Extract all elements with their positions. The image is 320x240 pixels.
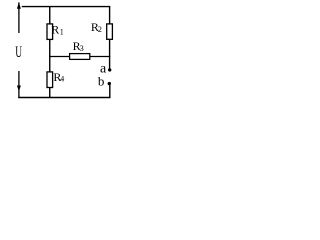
wire left lower segment (voltage source lead) — [18, 71, 20, 98]
resistor R4 — [47, 72, 53, 88]
wire R2 bottom to terminal a — [109, 39, 111, 69]
terminal node a dot — [108, 68, 111, 71]
wire R2 branch top — [109, 7, 111, 24]
wire R4 bottom — [49, 88, 51, 98]
resistor R2 — [107, 24, 113, 39]
svg-text:2: 2 — [98, 25, 102, 34]
wire R3 left — [49, 56, 69, 58]
resistor R1 — [47, 24, 53, 40]
terminal node b dot — [108, 82, 111, 85]
wire R1 to R3 junction — [49, 40, 51, 72]
voltage arrow U head up — [17, 2, 21, 9]
wire terminal b down to bottom node — [109, 84, 111, 98]
svg-text:R: R — [51, 22, 59, 36]
wire left upper segment (voltage source lead) — [18, 2, 20, 33]
wire R3 right to node a column — [90, 56, 111, 58]
wire R1 branch top — [49, 7, 51, 24]
voltage arrow U head down — [17, 86, 21, 92]
svg-text:1: 1 — [60, 27, 64, 36]
svg-text:U: U — [15, 44, 22, 61]
wire bottom (return node) — [18, 97, 110, 99]
svg-text:4: 4 — [60, 75, 64, 84]
wire top (node from source plus to resistor branches) — [22, 6, 111, 8]
resistor R3 — [70, 54, 90, 60]
svg-text:3: 3 — [80, 44, 84, 53]
svg-text:b: b — [98, 74, 105, 89]
